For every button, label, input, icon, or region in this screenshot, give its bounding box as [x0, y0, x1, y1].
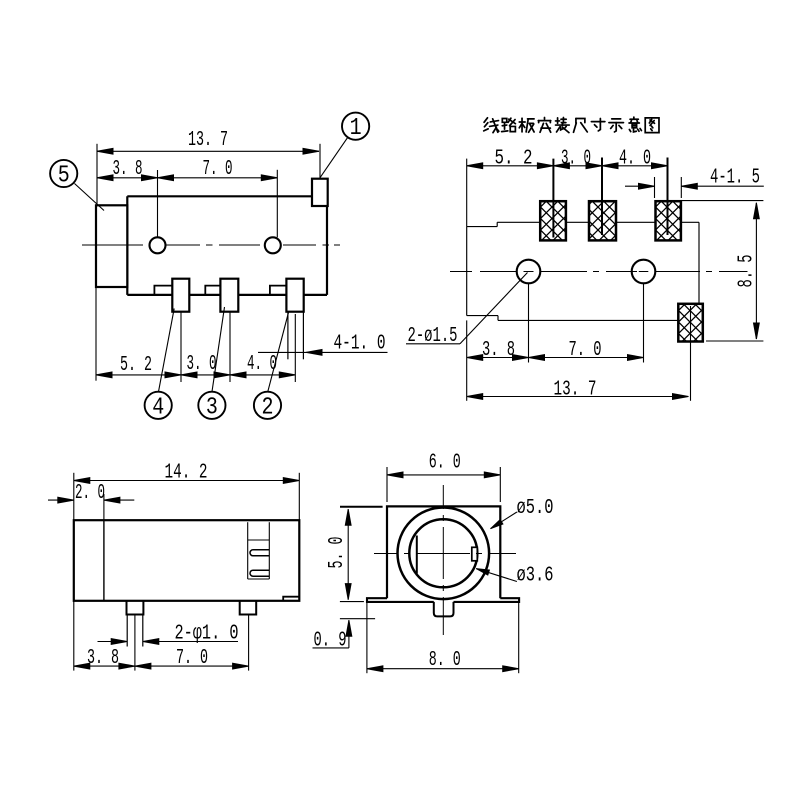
view C: dimension 2-dia1.0 — [98, 639, 239, 645]
view B: board outline right edge — [698, 222, 700, 303]
view D: dimension 8.0 — [367, 602, 519, 673]
view B: centerline — [450, 271, 748, 273]
view B: dimension 13.7 — [467, 306, 691, 401]
view B: dimension 3.8 — [467, 284, 529, 401]
svg-text:2. 0: 2. 0 — [75, 481, 105, 505]
svg-text:5. 2: 5. 2 — [495, 146, 533, 170]
view D: center pin stub — [434, 602, 454, 617]
balloon 2 callout — [254, 312, 289, 419]
view C: switch spring contact detail — [248, 522, 270, 579]
view C: dimension 14.2 — [74, 473, 299, 520]
svg-text:3. 0: 3. 0 — [561, 146, 591, 170]
view B: PCB layout title (Chinese) — [484, 117, 659, 132]
svg-text:6. 0: 6. 0 — [429, 451, 461, 475]
view D: outer barrel circle dia 5.0 — [398, 508, 490, 600]
view B: dimension 5.2 — [467, 159, 554, 227]
svg-text:3. 8: 3. 8 — [87, 646, 119, 670]
view D: label dia 5.0 with leader — [491, 512, 517, 529]
view B: hole right 1.5mm — [632, 260, 656, 284]
balloon 5 callout — [50, 160, 104, 211]
view A: dimension 7.0 — [158, 170, 278, 238]
svg-text:14. 2: 14. 2 — [165, 460, 208, 484]
view A: pin 3 terminal — [205, 279, 238, 312]
view B: hole left 1.5mm — [517, 260, 541, 284]
svg-text:5: 5 — [58, 163, 70, 190]
view A: pin 1 terminal block (top right) — [312, 179, 328, 206]
svg-text:4: 4 — [152, 394, 164, 421]
view D: left mounting flange — [367, 598, 434, 602]
view B: pad A center line — [552, 159, 554, 238]
view A: dimension 4-1.0 pin width callout — [258, 350, 388, 356]
view B: solder pad C — [656, 201, 681, 240]
svg-text:2: 2 — [262, 394, 274, 421]
svg-text:7. 0: 7. 0 — [203, 157, 233, 181]
svg-text:5. 2: 5. 2 — [120, 353, 152, 377]
view D: inner hole circle dia 3.6 — [409, 519, 477, 587]
view B: board outline left and bottom edge — [467, 227, 679, 321]
view D: contact flat chord — [416, 536, 418, 574]
svg-text:3. 0: 3. 0 — [187, 352, 217, 376]
svg-text:ø3.6: ø3.6 — [517, 563, 554, 587]
view B: solder pad A — [540, 201, 566, 240]
svg-text:0. 9: 0. 9 — [314, 628, 347, 652]
view D: label dia 3.6 with leader — [476, 569, 517, 582]
view B: dimension 8.5 — [681, 201, 764, 341]
view B: dimension 4-1.5 pad width — [625, 177, 764, 198]
view B: dimension 3.0 — [553, 163, 602, 169]
view A: connector side view - main body outline — [127, 196, 327, 295]
view D: right mounting flange — [454, 598, 520, 602]
svg-text:13. 7: 13. 7 — [188, 128, 228, 152]
balloon 3 callout — [198, 307, 225, 419]
svg-text:2-φ1. 0: 2-φ1. 0 — [175, 622, 239, 646]
view D: crosshair centerlines — [374, 485, 516, 635]
view A: pin 4 terminal — [154, 279, 189, 312]
svg-text:3. 8: 3. 8 — [482, 338, 515, 362]
view D: dimension 0.9 — [313, 602, 376, 648]
svg-text:8. 5: 8. 5 — [735, 255, 759, 288]
view A: dimension 3.0 — [181, 312, 230, 382]
view A: sleeve bushing (left block) — [96, 205, 127, 287]
svg-text:5. 0: 5. 0 — [325, 537, 349, 569]
view A: dimension 4.0 — [230, 314, 295, 382]
svg-text:4. 0: 4. 0 — [619, 146, 651, 170]
view C: dimension 2.0 — [48, 494, 134, 520]
svg-text:8. 0: 8. 0 — [429, 648, 461, 672]
view B: board outline top edge — [467, 222, 699, 226]
view A: mounting hole right — [265, 237, 281, 253]
view D: dimension 6.0 — [387, 467, 500, 502]
view B: dimension 7.0 — [529, 284, 644, 363]
svg-text:3. 8: 3. 8 — [113, 157, 143, 181]
svg-text:7. 0: 7. 0 — [176, 646, 208, 670]
view D: right key slot — [472, 547, 478, 561]
view B: solder pad D — [678, 304, 703, 342]
view A: dimension 3.8 — [97, 170, 158, 237]
view C: bottom-right notch — [283, 597, 299, 601]
view D: body outline — [387, 506, 500, 598]
view C: right pin stub — [240, 601, 257, 615]
svg-text:4-1. 5: 4-1. 5 — [710, 165, 760, 189]
view B: solder pad B — [589, 201, 616, 240]
view C: left pin stub — [127, 601, 144, 615]
view B: pad C center line — [667, 158, 669, 236]
view A: mounting hole left — [150, 237, 166, 253]
view A: pin 2 terminal — [270, 279, 304, 312]
svg-text:2-ø1.5: 2-ø1.5 — [408, 324, 458, 348]
view C: body outline — [74, 520, 299, 601]
view A: dimension 13.7 — [97, 144, 320, 206]
balloon 4 callout — [145, 309, 175, 419]
view D: dimension 5.0 — [340, 507, 383, 600]
view B: label 2-dia1.5 with leader — [406, 273, 528, 344]
svg-text:7. 0: 7. 0 — [569, 338, 602, 362]
view B: dimension 4.0 — [602, 163, 668, 169]
svg-text:4-1. 0: 4-1. 0 — [334, 331, 386, 355]
view B: pad B center line — [601, 158, 603, 236]
svg-text:13. 7: 13. 7 — [554, 378, 597, 402]
view A: centerline — [82, 244, 340, 246]
view A: pin 2 lead wires — [288, 312, 304, 360]
svg-text:1: 1 — [350, 115, 362, 142]
view A: dimension 5.2 — [96, 287, 181, 382]
svg-text:3: 3 — [206, 394, 218, 421]
view C: left pin lead wires dia 1.0 — [127, 615, 143, 647]
view C: dimension 3.8 — [74, 601, 135, 671]
balloon 1 callout — [320, 113, 370, 179]
view C: dimension 7.0 — [135, 615, 249, 671]
svg-text:ø5.0: ø5.0 — [517, 496, 554, 520]
view C: sleeve parting line — [103, 520, 105, 601]
